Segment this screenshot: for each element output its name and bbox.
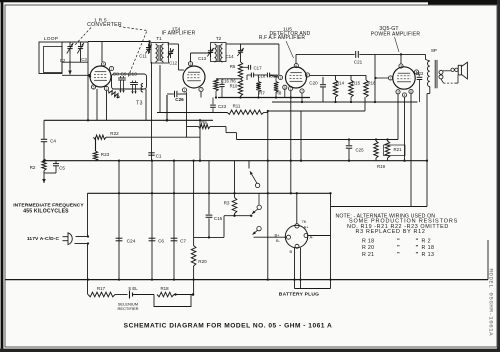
svg-text:7: 7 <box>200 88 202 92</box>
B- bus y160.7 <box>44 160 427 162</box>
secondary loops <box>439 70 443 74</box>
AVC wire y126.5 with R9 <box>187 126 199 128</box>
wire T2 secondary to V3 grid <box>241 43 279 45</box>
svg-text:7K: 7K <box>302 219 307 224</box>
svg-text:": " <box>416 252 419 258</box>
svg-text:C6: C6 <box>158 239 164 244</box>
bus y102 <box>272 101 418 103</box>
trimmer C11 <box>148 44 150 47</box>
svg-text:6: 6 <box>295 64 297 68</box>
svg-text:5: 5 <box>284 86 286 90</box>
pin 6 top V3 <box>294 64 298 68</box>
pin 5 right V4 <box>414 70 418 74</box>
svg-text:C12: C12 <box>169 61 178 66</box>
svg-text:T2: T2 <box>216 36 222 41</box>
leader line 1U5 <box>286 41 294 58</box>
svg-text:LOOP: LOOP <box>44 36 59 42</box>
ground return wire y173 <box>44 172 56 174</box>
grid wire pin2 <box>376 77 389 79</box>
capacitor C4 <box>43 120 45 139</box>
capacitor C20 <box>322 77 324 84</box>
svg-text:R8: R8 <box>276 90 282 95</box>
wire V3 pins down <box>284 89 286 97</box>
resistor R20 <box>193 161 195 246</box>
main filament bus y97.5 <box>218 97 310 99</box>
switch arm S2 <box>258 193 260 205</box>
hanging caps C24 C6 C7 <box>118 161 120 280</box>
svg-text:S EL: S EL <box>128 286 138 291</box>
svg-text:C15: C15 <box>214 216 223 221</box>
svg-text:C22: C22 <box>416 71 424 76</box>
trimmer C9 <box>121 77 126 79</box>
svg-text:R 18: R 18 <box>362 239 374 245</box>
svg-text:R 21: R 21 <box>362 252 374 258</box>
wire plug top to bus <box>296 193 298 223</box>
svg-text:C14: C14 <box>225 54 234 59</box>
wire loop bottom to grid of V1 <box>62 74 90 76</box>
svg-text:R.F A.F AMPLIFIER: R.F A.F AMPLIFIER <box>259 35 305 41</box>
svg-text:R14: R14 <box>336 81 345 86</box>
battery connector box bottom <box>295 288 331 290</box>
capacitor C15 <box>208 161 210 215</box>
svg-text:R18: R18 <box>160 286 169 291</box>
wire plate riser V1 <box>101 41 150 43</box>
resistor R15 <box>350 75 352 80</box>
plug pin left <box>287 235 291 239</box>
B+ return corner y206.5 <box>331 206 428 208</box>
pin 3 top V4 <box>399 64 403 68</box>
svg-text:6: 6 <box>103 63 105 67</box>
svg-text:7: 7 <box>301 90 303 94</box>
svg-text:CONVERTER: CONVERTER <box>87 22 122 28</box>
svg-text:R20: R20 <box>198 259 207 264</box>
svg-text:C7: C7 <box>180 239 186 244</box>
detector wire y112.5 with volume control <box>157 112 227 114</box>
resistor R18 <box>157 292 174 297</box>
screen bus y139.5 <box>237 139 399 141</box>
svg-text:R 18: R 18 <box>422 245 435 251</box>
svg-text:6: 6 <box>190 62 192 66</box>
svg-text:R5: R5 <box>230 64 236 69</box>
wire x301 down <box>300 111 302 161</box>
wire V1 cathode down <box>96 89 98 120</box>
plate wire V3 to C21 to V4 <box>296 53 355 55</box>
svg-text:R17: R17 <box>97 286 106 291</box>
svg-text:R19: R19 <box>377 164 386 169</box>
resistor R21 <box>387 140 389 142</box>
resistor R6 zigzag <box>214 79 218 91</box>
plug pin bottom <box>295 244 299 248</box>
plug bottom wires <box>294 248 296 289</box>
svg-text:C26: C26 <box>175 97 184 102</box>
plate load wire y76 <box>310 74 366 76</box>
pin 3 right V3 <box>305 73 309 77</box>
bottom chassis bus <box>5 279 488 281</box>
capacitor C23 <box>212 98 214 105</box>
wire V1 pin down <box>106 91 108 121</box>
alternate marking box around R21 <box>384 145 406 156</box>
capacitor C1 <box>151 62 153 161</box>
svg-text:3: 3 <box>307 74 309 78</box>
grid bus y120.3 <box>44 119 213 121</box>
svg-text:5: 5 <box>93 86 95 90</box>
svg-text:RECTIFIER: RECTIFIER <box>117 306 138 311</box>
svg-text:C16: C16 <box>221 79 229 84</box>
svg-text:C5: C5 <box>59 166 65 171</box>
resistor R11 volume <box>227 110 264 114</box>
svg-text:2: 2 <box>280 76 282 80</box>
resistor R19 <box>375 140 377 142</box>
wire plug to vertical <box>76 236 88 238</box>
svg-text:C24: C24 <box>127 239 136 245</box>
svg-text:8P: 8P <box>431 48 437 53</box>
wire y215.7 to switch <box>224 215 251 217</box>
T3 winding <box>141 84 143 93</box>
capacitor C16 <box>221 79 223 84</box>
pin 6 top of V1 <box>101 62 105 66</box>
svg-text:BATTERY PLUG: BATTERY PLUG <box>279 292 319 298</box>
switch arm S3 <box>257 226 261 230</box>
wire to battery plug B+ <box>254 236 287 238</box>
svg-text:3: 3 <box>400 65 402 69</box>
tube V4 3Q5-GT power amplifier <box>393 67 415 89</box>
svg-text:MODEL 05GHM-1061A: MODEL 05GHM-1061A <box>488 269 495 337</box>
svg-text:R7: R7 <box>259 90 265 95</box>
svg-text:C17: C17 <box>254 66 263 71</box>
speaker <box>458 65 461 75</box>
resistor R23 <box>95 137 97 151</box>
svg-text:455 KILOCYCLES: 455 KILOCYCLES <box>23 209 69 215</box>
junction wire x167 <box>166 95 168 120</box>
capacitor C5 <box>55 161 57 164</box>
leader line 3Q5 <box>395 37 400 52</box>
dashed leader lines from 1R5 label <box>74 28 91 47</box>
trimmer C14 <box>240 47 242 50</box>
svg-text:IF AMPLIFIER: IF AMPLIFIER <box>162 31 196 37</box>
svg-text:": " <box>397 252 400 258</box>
switch arm S1 <box>248 161 250 169</box>
wire loop top to tuning caps <box>62 41 88 43</box>
resistor R9 <box>199 124 211 128</box>
bottom pins V4 <box>396 90 400 94</box>
tube V2 1T4 IF amplifier <box>183 66 205 88</box>
trimmer C13 <box>210 47 212 50</box>
coupling capacitor C26 <box>167 93 174 95</box>
svg-text:R21: R21 <box>393 147 402 152</box>
svg-text:R2: R2 <box>30 165 36 170</box>
converter box top wire <box>88 41 107 43</box>
svg-text:R10: R10 <box>230 83 238 88</box>
svg-text:C20: C20 <box>309 81 318 86</box>
plug pin top <box>295 224 299 228</box>
svg-text:7: 7 <box>397 90 399 94</box>
svg-text:1: 1 <box>106 87 108 91</box>
resistor R16 <box>365 75 367 80</box>
svg-text:C8 C9 C10: C8 C9 C10 <box>113 72 137 78</box>
wire loop mid to C3 <box>62 61 88 63</box>
resistor R2 <box>42 159 46 171</box>
wire plug right to A- line <box>308 235 331 237</box>
svg-text:T3: T3 <box>136 101 143 107</box>
svg-text:C1: C1 <box>156 153 162 158</box>
resistor R17 <box>88 292 115 297</box>
primary winding <box>428 61 430 86</box>
svg-text:1: 1 <box>184 89 186 93</box>
ground below C2 <box>69 54 71 68</box>
alternate wiring loop <box>154 295 191 307</box>
trimmer C12 <box>170 48 172 51</box>
svg-text:": " <box>397 239 400 245</box>
svg-text:": " <box>416 245 419 251</box>
plug pin right <box>304 234 308 238</box>
svg-text:R3 REPLACED BY R12: R3 REPLACED BY R12 <box>356 229 426 235</box>
chassis ground arrow below R2 <box>43 173 45 184</box>
svg-text:R 2: R 2 <box>422 239 431 245</box>
svg-text:R 13: R 13 <box>422 252 435 258</box>
svg-text:1: 1 <box>290 87 292 91</box>
V4 plate riser <box>400 54 402 64</box>
svg-text:R 20: R 20 <box>362 245 374 251</box>
svg-text:POWER AMPLIFIER: POWER AMPLIFIER <box>371 32 421 38</box>
svg-text:": " <box>416 239 419 245</box>
svg-text:R15: R15 <box>352 81 361 86</box>
primary bottom return <box>429 87 431 94</box>
speaker return dashed <box>441 79 444 83</box>
svg-text:C23: C23 <box>218 104 227 109</box>
svg-text:C13: C13 <box>198 56 207 61</box>
svg-text:C11: C11 <box>139 54 147 59</box>
resistor R22 <box>94 135 107 139</box>
svg-text:B+: B+ <box>275 233 281 238</box>
svg-text:8: 8 <box>410 90 412 94</box>
wire T1 right to V2 grid <box>168 43 179 45</box>
resistor R7 <box>256 82 260 92</box>
grid cluster wire y78.8 <box>216 78 241 80</box>
resistor R8 <box>274 82 278 93</box>
V4 pin wires down <box>397 94 399 140</box>
117V line bus y193.3 <box>88 192 331 194</box>
capacitor C17 <box>247 65 249 70</box>
svg-text:R23: R23 <box>101 152 110 157</box>
pin 2 left V4 <box>388 76 392 80</box>
border: outer black bars of scan <box>1 0 4 349</box>
svg-text:A+: A+ <box>304 224 310 229</box>
tube V1 1R5 converter <box>90 66 111 87</box>
wire x375 down <box>374 54 376 102</box>
svg-text:R22: R22 <box>110 131 119 136</box>
trimmer C10 <box>130 82 135 84</box>
trimmer C8 <box>118 77 123 79</box>
resistor R3 <box>234 161 236 198</box>
junction dots <box>87 278 89 280</box>
wire V3 pin2 down to battery plug <box>290 91 292 194</box>
pin 6 top V2 <box>188 62 192 66</box>
svg-text:C25: C25 <box>355 148 364 153</box>
svg-text:7: 7 <box>111 67 113 71</box>
grid pin V1 left <box>89 75 91 77</box>
wire y111 right segment <box>268 110 365 112</box>
capacitor C25 screen bypass <box>348 140 350 146</box>
speaker wiring <box>443 70 451 72</box>
bottom pins V2 <box>182 88 186 92</box>
svg-text:": " <box>397 245 400 251</box>
svg-text:C3: C3 <box>81 57 87 62</box>
wire V2 pins down <box>186 92 188 137</box>
svg-text:C21: C21 <box>354 60 363 65</box>
trimmer C10b <box>133 82 138 84</box>
bottom pins V1 <box>91 85 95 89</box>
core lines <box>434 60 436 88</box>
coupling capacitor C21 <box>355 51 357 58</box>
oscillator coil T3 box <box>112 74 147 89</box>
wire y237.4 to R20 <box>194 236 224 238</box>
svg-text:R3: R3 <box>224 201 230 206</box>
resistor R14 <box>335 75 337 80</box>
wire T3 right side down to bus <box>145 89 147 120</box>
svg-text:R11: R11 <box>233 104 241 109</box>
svg-text:B-: B- <box>276 238 281 243</box>
pin 2 grid left V3 <box>278 75 282 79</box>
svg-text:SCHEMATIC DIAGRAM FOR MODEL NO: SCHEMATIC DIAGRAM FOR MODEL NO. 05 - GHM… <box>124 323 333 330</box>
A- vertical <box>330 193 332 288</box>
wire C18 left down <box>247 74 251 76</box>
wire V2 plate to T2 <box>190 53 192 62</box>
svg-text:C2: C2 <box>60 58 66 63</box>
svg-text:2: 2 <box>390 77 392 81</box>
bottom pins V3 <box>283 85 287 89</box>
svg-text:R16: R16 <box>367 81 376 86</box>
svg-text:4: 4 <box>404 94 406 98</box>
tube V3 1U5 detector <box>286 67 307 88</box>
switch feed vertical <box>267 111 269 280</box>
battery plug <box>285 225 307 247</box>
capacitor C19 <box>266 73 268 78</box>
svg-text:B: B <box>290 249 293 254</box>
svg-text:C4: C4 <box>50 139 56 144</box>
svg-text:117V A-C/D-C: 117V A-C/D-C <box>27 236 60 242</box>
AVC bus wire y137.2 to y160 corner <box>106 136 200 138</box>
svg-text:T1: T1 <box>156 36 162 41</box>
capacitor C18 <box>250 73 252 78</box>
